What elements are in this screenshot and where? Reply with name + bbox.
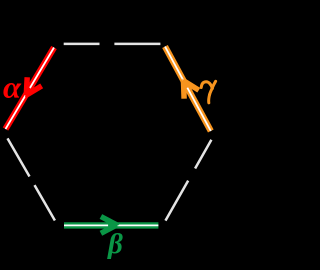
node green arrowhead (101, 217, 119, 234)
svg-text:β: β (107, 228, 123, 260)
node green edge band (BL to BR) (64, 222, 158, 228)
wire lower-left dashed edge L-BL (8, 138, 55, 220)
svg-text:α: α (3, 70, 22, 104)
node orange edge band (TR to R) (165, 47, 211, 132)
node red edge band (TL to L) (6, 48, 55, 130)
wire lower-right dashed edge R-BR (165, 140, 212, 222)
node red arrowhead (25, 77, 42, 97)
wire top dashed edge TL-TR (64, 43, 161, 46)
node orange arrowhead (182, 79, 199, 99)
node gamma label (201, 81, 215, 103)
